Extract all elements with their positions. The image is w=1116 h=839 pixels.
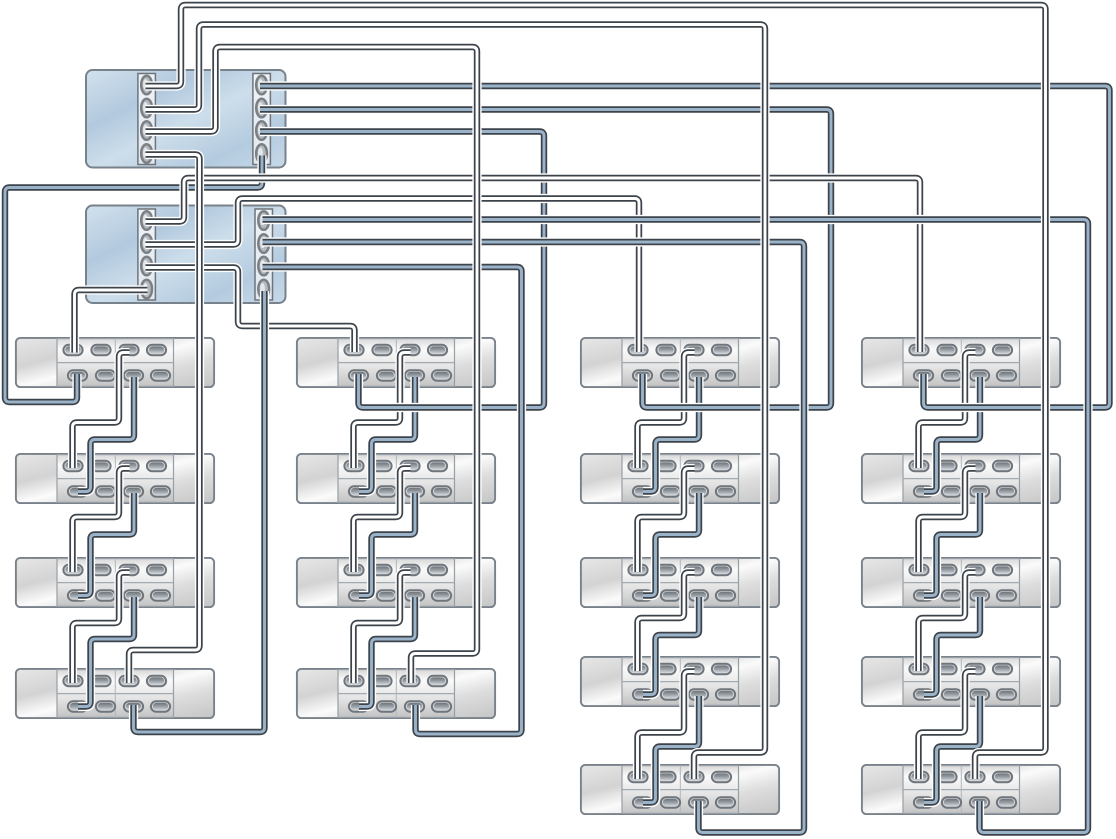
wire U1 HBA-R port4 to shelf C1-1 B1 bbox=[5, 156, 262, 403]
disk shelf column 1 row 1 bbox=[16, 338, 214, 387]
wire chain C2-3 T3 to C2-4 T1 bbox=[354, 573, 411, 684]
wire chain C2-2 B3 to C2-3 B1 bbox=[359, 493, 415, 596]
wire U1 HBA-R port3 to shelf C2-1 B1 bbox=[260, 132, 544, 408]
wire chain C2-1 B3 to C2-2 B1 bbox=[359, 377, 415, 492]
disk shelf column 4 row 5 bbox=[862, 765, 1060, 814]
wire chain C3-3 B3 to C3-4 B1 bbox=[643, 597, 699, 695]
wire chain C3-2 B3 to C3-3 B1 bbox=[643, 493, 699, 596]
disk shelf column 3 row 5 bbox=[581, 765, 779, 814]
controller U1 (top storage controller) bbox=[86, 70, 286, 168]
disk shelf column 1 row 2 bbox=[16, 454, 214, 503]
wire U2 HBA-L port3 to shelf C2-1 T1 bbox=[146, 268, 355, 353]
wire U2 HBA-L port1 to shelf C4-1 T1 bbox=[146, 178, 921, 352]
wire chain C1-3 B3 to C1-4 B1 bbox=[78, 597, 134, 707]
wire chain C2-2 T3 to C2-3 T1 bbox=[354, 469, 411, 573]
wire chain C4-4 B3 to C4-5 B1 bbox=[924, 696, 980, 803]
wire U2 HBA-R port3 to shelf C2-4 B3 bbox=[263, 267, 522, 734]
controller U1 HBA slot 2 bbox=[253, 74, 271, 165]
disk shelf column 2 row 1 bbox=[297, 338, 495, 387]
wire chain C3-2 T3 to C3-3 T1 bbox=[638, 469, 695, 573]
wire U1 HBA-L port4 to shelf C1-4 T3 bbox=[129, 155, 200, 684]
wire chain C4-4 T3 to C4-5 T1 bbox=[919, 672, 976, 780]
wire chain C2-3 B3 to C2-4 B1 bbox=[359, 597, 415, 707]
wire chain C1-3 T3 to C1-4 T1 bbox=[73, 573, 130, 684]
wire chain C3-3 T3 to C3-4 T1 bbox=[638, 573, 695, 672]
controller U2 HBA slot 2 bbox=[255, 209, 273, 300]
disk shelf column 2 row 2 bbox=[297, 454, 495, 503]
wire U2 HBA-R port4 to shelf C1-4 B3 bbox=[134, 291, 265, 732]
wire U2 HBA-L port2 to shelf C3-1 T1 bbox=[146, 199, 640, 353]
controller U1 HBA slot 1 bbox=[138, 74, 156, 165]
wire chain C4-3 T3 to C4-4 T1 bbox=[919, 573, 976, 672]
wire U1 HBA-L port1 to shelf C4-5 T3 bbox=[146, 5, 1046, 779]
wire chain C3-4 T3 to C3-5 T1 bbox=[638, 672, 695, 780]
wire chain C1-1 T3 to C1-2 T1 bbox=[73, 353, 130, 469]
disk shelf column 2 row 3 bbox=[297, 558, 495, 607]
disk shelf column 3 row 2 bbox=[581, 454, 779, 503]
wire chain C3-1 B3 to C3-2 B1 bbox=[643, 377, 699, 492]
wire chain C4-1 T3 to C4-2 T1 bbox=[919, 353, 976, 469]
wire U2 HBA-R port2 to shelf C3-5 B3 bbox=[263, 242, 805, 833]
disk shelf column 4 row 4 bbox=[862, 657, 1060, 706]
controller U2 HBA slot 1 bbox=[138, 209, 156, 300]
wire U1 HBA-R port2 to shelf C3-1 B1 bbox=[260, 110, 831, 408]
disk shelf column 4 row 1 bbox=[862, 338, 1060, 387]
disk shelf column 1 row 3 bbox=[16, 558, 214, 607]
wire chain C3-1 T3 to C3-2 T1 bbox=[638, 353, 695, 469]
wire chain C4-3 B3 to C4-4 B1 bbox=[924, 597, 980, 695]
wire chain C4-2 B3 to C4-3 B1 bbox=[924, 493, 980, 596]
disk shelf column 3 row 1 bbox=[581, 338, 779, 387]
wire chain C1-1 B3 to C1-2 B1 bbox=[78, 377, 134, 492]
wire U1 HBA-L port3 to shelf C2-4 T3 bbox=[146, 47, 478, 683]
wire chain C2-1 T3 to C2-2 T1 bbox=[354, 353, 411, 469]
wire chain C4-1 B3 to C4-2 B1 bbox=[924, 377, 980, 492]
wire U1 HBA-L port2 to shelf C3-5 T3 bbox=[146, 25, 766, 780]
wire chain C3-4 B3 to C3-5 B1 bbox=[643, 696, 699, 803]
wire chain C1-2 T3 to C1-3 T1 bbox=[73, 469, 130, 573]
wire U2 HBA-L port4 to shelf C1-1 T1 bbox=[75, 290, 148, 353]
wire U1 HBA-R port1 to shelf C4-1 B1 bbox=[260, 86, 1110, 408]
wire U2 HBA-R port1 to shelf C4-5 B3 bbox=[263, 220, 1089, 833]
disk shelf column 2 row 4 bbox=[297, 669, 495, 718]
disk shelf column 4 row 3 bbox=[862, 558, 1060, 607]
wire chain C1-2 B3 to C1-3 B1 bbox=[78, 493, 134, 596]
disk shelf column 3 row 4 bbox=[581, 657, 779, 706]
wire chain C4-2 T3 to C4-3 T1 bbox=[919, 469, 976, 573]
disk shelf column 4 row 2 bbox=[862, 454, 1060, 503]
disk shelf column 1 row 4 bbox=[16, 669, 214, 718]
disk shelf column 3 row 3 bbox=[581, 558, 779, 607]
controller U2 (bottom storage controller) bbox=[86, 206, 286, 304]
